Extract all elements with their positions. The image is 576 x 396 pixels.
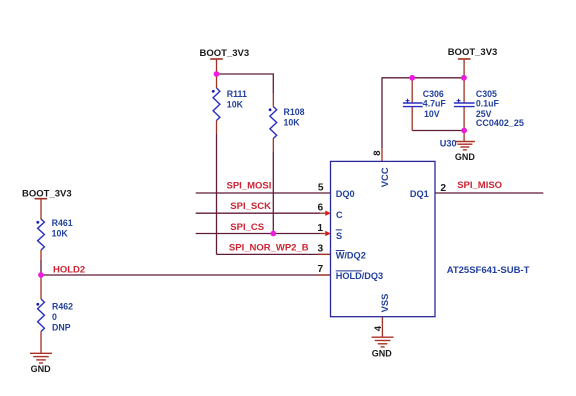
svg-text:GND: GND [455, 152, 476, 162]
svg-text:2: 2 [440, 183, 446, 194]
svg-text:R461: R461 [52, 218, 73, 228]
svg-text:4: 4 [373, 325, 384, 331]
svg-text:SPI_CS: SPI_CS [230, 222, 264, 233]
svg-text:BOOT_3V3: BOOT_3V3 [448, 47, 498, 58]
svg-text:DQ0: DQ0 [336, 189, 355, 199]
svg-text:VCC: VCC [379, 167, 390, 187]
svg-text:10K: 10K [227, 100, 244, 110]
svg-text:VSS: VSS [379, 294, 390, 313]
svg-text:8: 8 [372, 151, 383, 156]
svg-text:3: 3 [318, 244, 324, 255]
svg-text:C: C [336, 210, 343, 220]
svg-text:W/DQ2: W/DQ2 [336, 251, 366, 261]
svg-text:5: 5 [318, 183, 324, 194]
svg-text:10K: 10K [52, 229, 69, 239]
svg-text:GND: GND [31, 364, 51, 374]
svg-text:HOLD2: HOLD2 [53, 264, 85, 275]
svg-text:AT25SF641-SUB-T: AT25SF641-SUB-T [447, 265, 530, 276]
svg-text:0.1uF: 0.1uF [476, 99, 500, 109]
svg-text:7: 7 [318, 264, 324, 275]
svg-text:U30: U30 [440, 138, 457, 148]
svg-text:1: 1 [317, 223, 323, 234]
svg-text:6: 6 [318, 203, 324, 214]
svg-text:GND: GND [372, 348, 393, 358]
svg-text:R108: R108 [284, 107, 305, 117]
svg-text:SPI_NOR_WP2_B: SPI_NOR_WP2_B [229, 242, 309, 253]
svg-text:DQ1: DQ1 [410, 189, 429, 199]
svg-text:S: S [336, 231, 342, 241]
svg-text:R462: R462 [52, 302, 73, 312]
svg-text:DNP: DNP [52, 323, 71, 333]
svg-text:SPI_MOSI: SPI_MOSI [227, 181, 272, 192]
svg-text:SPI_SCK: SPI_SCK [230, 201, 271, 212]
svg-text:0: 0 [52, 312, 57, 322]
svg-text:10K: 10K [284, 117, 301, 127]
svg-text:BOOT_3V3: BOOT_3V3 [22, 188, 72, 199]
svg-text:C306: C306 [423, 89, 444, 99]
svg-text:SPI_MISO: SPI_MISO [457, 180, 502, 191]
svg-text:BOOT_3V3: BOOT_3V3 [200, 48, 250, 59]
svg-text:CC0402_25: CC0402_25 [476, 118, 524, 128]
svg-text:10V: 10V [424, 109, 440, 119]
svg-text:4.7uF: 4.7uF [423, 99, 447, 109]
svg-text:R111: R111 [227, 89, 247, 99]
svg-text:HOLD/DQ3: HOLD/DQ3 [336, 271, 383, 281]
svg-text:C305: C305 [476, 89, 497, 99]
